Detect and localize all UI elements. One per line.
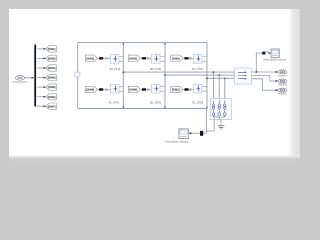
svg-text:[SW1]: [SW1]	[48, 48, 56, 51]
svg-text:BH (S3): BH (S3)	[150, 67, 161, 71]
svg-text:[SW7]: [SW7]	[48, 105, 56, 108]
svg-text:Phase C: Phase C	[278, 93, 287, 96]
svg-text:[SW6]: [SW6]	[129, 89, 137, 92]
svg-text:[SW2]: [SW2]	[172, 89, 180, 92]
svg-text:Three-phase currents: Three-phase currents	[263, 58, 287, 61]
svg-text:[SW5]: [SW5]	[48, 86, 56, 89]
svg-text:CH (S5): CH (S5)	[192, 67, 204, 71]
svg-text:Phase A: Phase A	[278, 74, 287, 77]
svg-text:BL (S6): BL (S6)	[150, 101, 161, 105]
svg-text:[SW3]: [SW3]	[48, 67, 56, 70]
svg-text:Phase B: Phase B	[278, 84, 287, 87]
svg-text:[SW6]: [SW6]	[48, 96, 56, 99]
svg-text:[SW1]: [SW1]	[86, 57, 94, 60]
svg-text:Three-phase voltages: Three-phase voltages	[165, 140, 189, 143]
svg-text:[SW4]: [SW4]	[86, 89, 94, 92]
svg-text:AL (S4): AL (S4)	[108, 101, 119, 105]
svg-text:[SW3]: [SW3]	[129, 57, 137, 60]
svg-text:AH (S1): AH (S1)	[109, 67, 120, 71]
svg-text:Switching pattern: Switching pattern	[12, 80, 27, 83]
svg-text:[SW2]: [SW2]	[48, 58, 56, 61]
svg-text:CL (S2): CL (S2)	[192, 101, 203, 105]
svg-text:[SW5]: [SW5]	[172, 57, 180, 60]
svg-text:[SW4]: [SW4]	[48, 77, 56, 80]
